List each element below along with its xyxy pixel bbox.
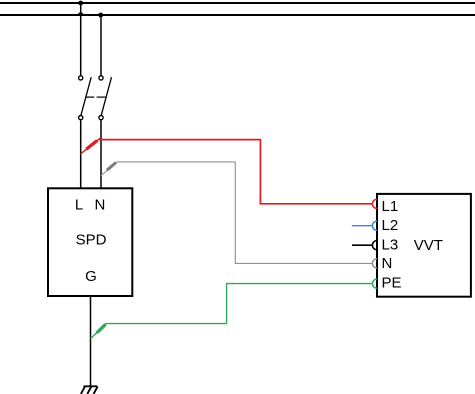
- breaker Q1 pole 1 top terminal: [79, 76, 83, 80]
- wire black stub at VVT terminal L3: [352, 244, 372, 246]
- svg-text:L2: L2: [382, 217, 399, 234]
- bus line 1 (top phase conductor): [0, 2, 475, 4]
- VVT terminal socket L3: [372, 241, 377, 250]
- wire SPD G to ground: [90, 296, 92, 386]
- svg-text:L3: L3: [382, 236, 399, 253]
- ground symbol: [81, 386, 98, 394]
- splice marker on gray tap: [107, 163, 116, 171]
- breaker Q1 pole 1 bottom terminal: [79, 116, 83, 120]
- breaker Q1 pole 1 blade: [81, 77, 91, 115]
- wire red L1 tap diagonal from L wire: [81, 138, 101, 154]
- wire breaker pole 1 to SPD terminal L: [80, 120, 82, 189]
- wire N drop from bus line 2 to breaker: [100, 15, 102, 76]
- node junction dot on bus line 1: [78, 1, 83, 6]
- svg-text:N: N: [94, 196, 105, 213]
- VVT terminal socket L2: [372, 221, 377, 230]
- wire gray N tap from N wire to VVT terminal N: [101, 162, 372, 264]
- svg-text:PE: PE: [382, 274, 402, 291]
- wire red L1 run to VVT terminal L1: [99, 140, 372, 204]
- VVT terminal socket L1: [372, 199, 377, 208]
- svg-text:SPD: SPD: [76, 232, 107, 249]
- svg-text:L: L: [75, 196, 83, 213]
- bus line 2 (neutral conductor): [0, 14, 475, 16]
- splice marker on red tap: [86, 141, 97, 150]
- breaker Q1 pole 2 blade: [101, 77, 111, 115]
- wire crossover hop of L wire over bus line 2: [78, 12, 84, 15]
- wire L drop from bus line 1 to breaker: [80, 3, 82, 76]
- node junction dot on bus line 2: [98, 13, 103, 18]
- breaker Q1 mechanical coupling dashed link: [85, 96, 94, 98]
- svg-text:N: N: [382, 255, 393, 272]
- svg-text:G: G: [85, 268, 97, 285]
- splice marker on green tap: [97, 324, 106, 332]
- wire breaker pole 2 to SPD terminal N: [100, 120, 102, 189]
- wire blue stub at VVT terminal L2: [352, 225, 373, 227]
- VVT terminal socket N: [372, 259, 377, 268]
- SPD box: [48, 188, 132, 296]
- svg-text:L1: L1: [382, 198, 399, 215]
- breaker Q1 pole 2 bottom terminal: [99, 116, 103, 120]
- VVT terminal socket PE: [372, 279, 377, 288]
- svg-text:VVT: VVT: [414, 237, 443, 254]
- breaker Q1 pole 2 top terminal: [99, 76, 103, 80]
- VVT box: [377, 194, 471, 297]
- wire green PE tap from ground wire to VVT terminal PE: [91, 284, 373, 339]
